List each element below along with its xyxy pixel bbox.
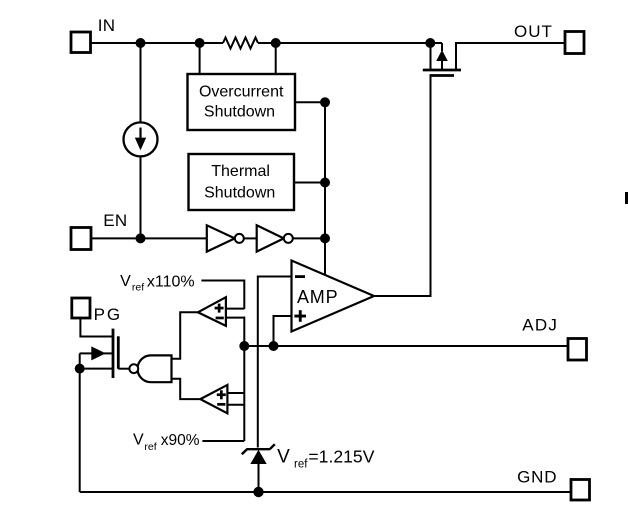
node junction thermal/bus: [320, 178, 330, 188]
edge artifact mark: [625, 192, 628, 204]
wire PG left vertical to GND: [79, 353, 81, 492]
wire zener to GND: [258, 464, 260, 492]
wire resistor to Q1: [258, 42, 442, 44]
NAND gate U5: [129, 355, 171, 382]
wire AMP output to Q1 gate: [374, 76, 431, 297]
wire GND rail: [80, 491, 571, 493]
svg-text:IN: IN: [98, 16, 116, 35]
wire EN rail: [92, 237, 207, 239]
svg-text:AMP: AMP: [297, 287, 338, 307]
wire AMP minus to Vref node: [258, 277, 292, 448]
zener diode Vref: [242, 444, 275, 464]
wire stub overcurrent right: [275, 43, 277, 74]
wire NAND output to Q2 gate: [118, 368, 129, 370]
node junction overcurrent/bus: [320, 97, 330, 107]
wire IN rail: [91, 42, 224, 44]
current source I1: [124, 122, 158, 156]
svg-text:V: V: [133, 432, 144, 449]
wire cmp1 output to NAND: [172, 312, 198, 359]
node junction IN/current source: [136, 38, 146, 48]
wire cmp2 output to NAND: [172, 379, 201, 399]
op-amp AMP: [292, 261, 375, 332]
node junction Q1 drain: [425, 38, 435, 48]
node junction ADJ/comparators: [239, 341, 249, 351]
transistor Q2 PG open-drain: [91, 329, 118, 378]
wire cmp1 plus stub: [226, 308, 244, 310]
wire shutdown bus: [324, 102, 326, 275]
transistor Q1 pass FET: [423, 50, 461, 76]
comparator U3 (110%): [198, 297, 226, 326]
wire ADJ rail: [244, 345, 568, 347]
node junction EN: [136, 233, 146, 243]
svg-text:V: V: [277, 447, 290, 468]
wire cmp2 plus stub: [227, 392, 244, 394]
svg-text:PG: PG: [94, 305, 123, 324]
wire overcurrent output: [295, 101, 325, 103]
svg-text:ref: ref: [144, 441, 156, 453]
wire Q2 source: [80, 368, 113, 370]
svg-text:GND: GND: [517, 468, 557, 487]
svg-text:Thermal: Thermal: [211, 163, 270, 180]
wire IN vertical to current source: [140, 43, 142, 123]
svg-text:ref: ref: [294, 458, 308, 470]
wire cmp1 minus stub: [226, 317, 244, 319]
wire Vref x110%: [201, 281, 244, 310]
node junction inverter/bus: [320, 233, 330, 243]
comparator U4 (90%): [200, 385, 227, 413]
svg-text:Shutdown: Shutdown: [204, 184, 275, 201]
node junction ADJ/AMP plus: [269, 341, 279, 351]
wire OUT: [456, 43, 565, 70]
svg-text:Shutdown: Shutdown: [204, 103, 275, 120]
wire current source to EN rail: [140, 156, 142, 238]
wire thermal output: [294, 182, 325, 184]
node junction zener/GND: [253, 487, 263, 497]
inverter U2b: [257, 225, 293, 251]
svg-text:x90%: x90%: [161, 432, 200, 449]
wire stub overcurrent left: [199, 43, 201, 74]
terminal GND: [571, 480, 590, 501]
terminal IN: [71, 32, 91, 53]
wire Q2 body arrow to bar: [104, 352, 113, 354]
node junction resistor left: [195, 38, 205, 48]
wire cmp2 minus stub: [227, 404, 244, 406]
wire Vref x90%: [202, 440, 244, 442]
wire Q1 body arrow to bar: [441, 60, 443, 70]
box thermal shutdown: [189, 154, 295, 210]
svg-text:Overcurrent: Overcurrent: [199, 84, 284, 101]
wire inverter1 to inverter2: [244, 237, 257, 239]
svg-text:ref: ref: [132, 282, 144, 294]
svg-text:ADJ: ADJ: [522, 316, 558, 335]
wire inverter2 to bus: [293, 237, 325, 239]
wire Q1 body drop: [441, 43, 443, 51]
terminal EN: [71, 228, 91, 250]
svg-text:=1.215V: =1.215V: [308, 447, 374, 467]
inverter U2a: [207, 225, 244, 251]
node junction Q2 source: [75, 364, 85, 374]
wire PG drain: [80, 319, 113, 337]
wire AMP plus to ADJ: [274, 316, 292, 346]
svg-text:OUT: OUT: [514, 22, 553, 41]
wire Q2 body: [80, 352, 93, 354]
svg-text:x110%: x110%: [147, 273, 195, 290]
terminal OUT: [565, 32, 584, 54]
box overcurrent shutdown: [188, 74, 296, 130]
wire cmp chain vertical: [243, 317, 245, 442]
terminal PG: [72, 298, 90, 318]
wire Q1 drain: [430, 43, 432, 70]
svg-text:EN: EN: [103, 211, 127, 230]
resistor R1: [223, 38, 258, 49]
svg-text:V: V: [120, 273, 131, 290]
terminal ADJ: [568, 339, 587, 361]
node junction resistor right: [271, 38, 281, 48]
